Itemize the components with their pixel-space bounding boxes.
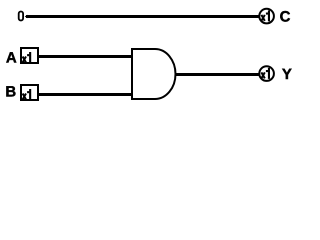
svg-text:Y: Y — [282, 66, 292, 83]
AND gate U1 — [132, 49, 175, 99]
arrow tap at start of wire from constant 0 — [25, 15, 28, 19]
net label 0 (constant on wire to C) — [19, 12, 23, 21]
wire from constant 0 to output probe C — [26, 15, 259, 18]
wire from pin B to AND gate input — [38, 93, 133, 96]
wire from AND gate output to probe Y — [175, 73, 259, 76]
svg-text:B: B — [5, 84, 16, 101]
wire from pin A to AND gate input — [38, 55, 133, 58]
input pin A (box showing value x1) — [21, 48, 38, 63]
output probe C (circle showing value x1) — [259, 9, 274, 24]
svg-text:C: C — [280, 8, 291, 25]
output probe Y (circle showing value x1) — [259, 66, 274, 81]
svg-text:A: A — [6, 50, 17, 67]
input pin B (box showing value x1) — [21, 85, 38, 100]
